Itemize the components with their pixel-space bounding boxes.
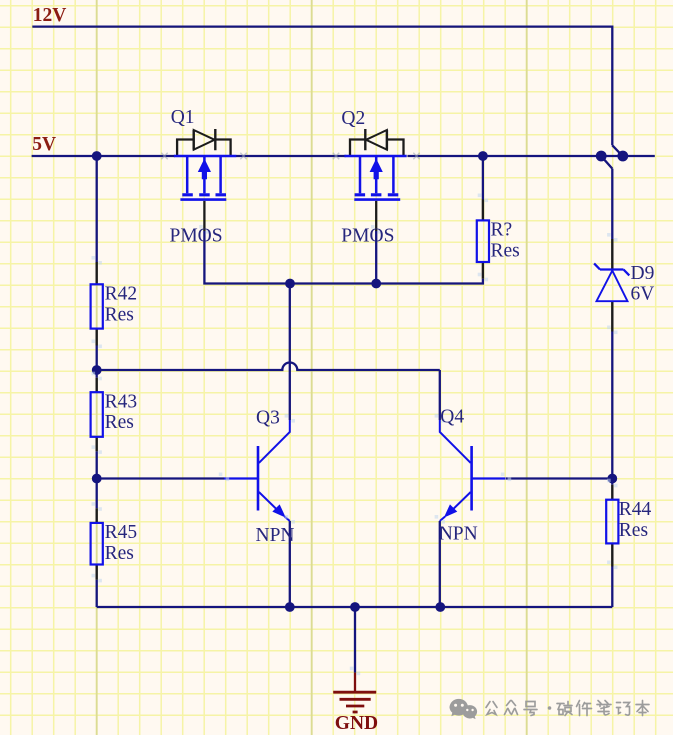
svg-text:R42: R42 [105, 284, 138, 305]
svg-text:NPN: NPN [439, 524, 478, 545]
svg-text:Q4: Q4 [440, 407, 464, 428]
svg-text:Q1: Q1 [171, 107, 195, 128]
svg-text:Res: Res [491, 240, 520, 261]
svg-text:GND: GND [335, 713, 378, 734]
svg-text:R45: R45 [105, 522, 138, 543]
svg-text:5V: 5V [32, 134, 56, 155]
svg-text:Res: Res [105, 412, 134, 433]
svg-text:D9: D9 [631, 263, 655, 284]
svg-text:PMOS: PMOS [341, 225, 394, 246]
svg-text:PMOS: PMOS [170, 225, 223, 246]
svg-text:R44: R44 [619, 499, 652, 520]
svg-text:NPN: NPN [256, 525, 295, 546]
svg-text:Res: Res [619, 520, 648, 541]
svg-text:Res: Res [105, 543, 134, 564]
svg-text:Q3: Q3 [256, 408, 280, 429]
svg-text:Q2: Q2 [341, 108, 365, 129]
svg-text:R?: R? [491, 220, 513, 241]
svg-text:R43: R43 [105, 392, 138, 413]
svg-text:12V: 12V [33, 5, 67, 26]
svg-text:6V: 6V [631, 284, 655, 305]
svg-text:Res: Res [105, 304, 134, 325]
